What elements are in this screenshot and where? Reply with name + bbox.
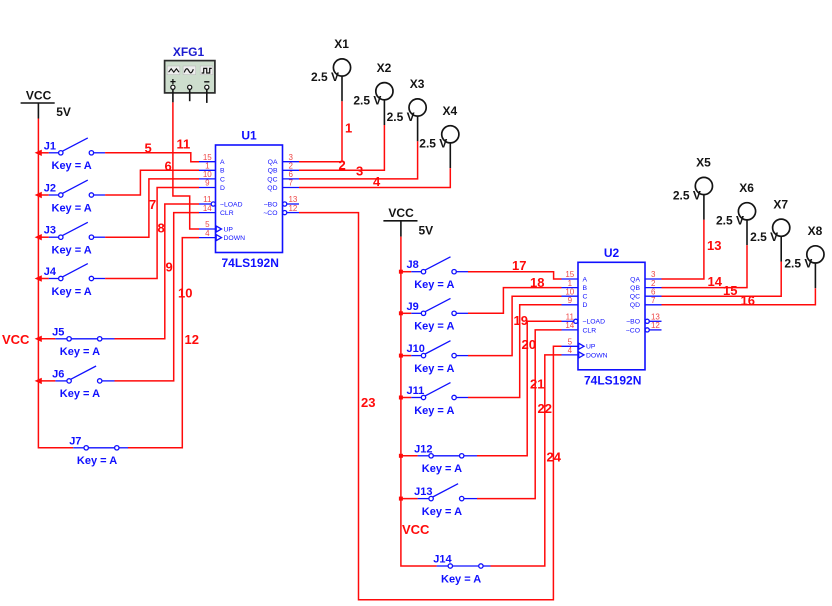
wire 20 : J11 to U2 pin D — [468, 305, 562, 398]
svg-text:19: 19 — [514, 313, 528, 328]
wire 9 : J5 to U1 pin ~LOAD — [115, 204, 200, 339]
wire 18 : J9 to U2 pin B — [468, 288, 562, 314]
junction arrow at J4 row — [35, 275, 42, 281]
svg-text:2.5 V: 2.5 V — [419, 137, 447, 151]
svg-text:X4: X4 — [443, 104, 458, 118]
pin 12 (~CO) of U1 — [283, 211, 287, 215]
wire 12 : J7 to U1 pin DOWN — [128, 238, 199, 448]
wire 11 : XFG1 + output to U1 pin UP — [173, 102, 199, 229]
switch J9 — [407, 298, 469, 332]
svg-text:17: 17 — [512, 258, 526, 273]
svg-text:2.5 V: 2.5 V — [750, 230, 778, 244]
svg-text:18: 18 — [530, 275, 544, 290]
svg-text:5: 5 — [145, 141, 152, 156]
switch J6 — [52, 366, 114, 400]
svg-text:J6: J6 — [52, 368, 64, 380]
svg-text:4: 4 — [568, 346, 573, 355]
svg-text:~LOAD: ~LOAD — [583, 319, 606, 326]
svg-text:B: B — [220, 168, 225, 175]
svg-text:U2: U2 — [604, 246, 620, 260]
svg-text:X5: X5 — [696, 156, 711, 170]
wire from VCC rail to J8 — [401, 271, 411, 273]
wire 4 : U1 QD to lamp X4 — [299, 168, 450, 187]
svg-text:J12: J12 — [414, 443, 432, 455]
wire from VCC rail to J13 — [401, 498, 418, 500]
svg-text:QC: QC — [630, 294, 640, 301]
svg-text:~BO: ~BO — [626, 319, 640, 326]
wire 15 : U2 QC to lamp X7 — [662, 262, 782, 297]
svg-text:X1: X1 — [334, 37, 349, 51]
svg-text:D: D — [583, 302, 588, 309]
counter IC U2 74LS192N — [562, 246, 662, 388]
svg-text:15: 15 — [723, 283, 737, 298]
pin 15 (A) of U2 — [562, 278, 579, 280]
svg-text:C: C — [220, 176, 225, 183]
pin 4 (DOWN) of U2 — [562, 354, 579, 356]
svg-text:J1: J1 — [44, 140, 56, 152]
svg-text:Key = A: Key = A — [52, 160, 92, 172]
svg-text:QD: QD — [630, 302, 640, 309]
switch J8 — [407, 257, 469, 291]
svg-text:2.5 V: 2.5 V — [353, 94, 381, 108]
pin 6 (QC) of U2 — [645, 295, 662, 297]
svg-text:11: 11 — [177, 137, 191, 152]
svg-text:Key = A: Key = A — [414, 279, 454, 291]
svg-text:J11: J11 — [407, 385, 425, 397]
svg-text:X7: X7 — [773, 197, 788, 211]
svg-text:2: 2 — [339, 158, 346, 173]
svg-text:X2: X2 — [377, 61, 392, 75]
svg-text:~LOAD: ~LOAD — [220, 201, 243, 208]
svg-text:J7: J7 — [69, 435, 81, 447]
lamp X7 2.5V — [750, 197, 790, 261]
wire from VCC rail to J10 — [401, 355, 411, 357]
function generator XFG1 — [165, 45, 215, 103]
svg-text:9: 9 — [166, 260, 173, 275]
switch J11 — [407, 383, 469, 417]
pin 5 (UP) of U1 — [199, 228, 216, 230]
wire 16 : U2 QD to lamp X8 — [662, 288, 816, 305]
svg-text:6: 6 — [165, 158, 172, 173]
junction arrow at J2 row — [35, 192, 42, 198]
power symbol VCC 5V (right section) — [383, 206, 433, 237]
switch J10 — [407, 341, 469, 375]
wire from VCC rail to J9 — [401, 312, 411, 314]
pin 2 (QB) of U1 — [283, 169, 300, 171]
svg-text:14: 14 — [565, 321, 574, 330]
svg-text:14: 14 — [708, 274, 723, 289]
pin 15 (A) of U1 — [199, 161, 216, 163]
pin 1 (B) of U1 — [199, 169, 216, 171]
svg-text:Key = A: Key = A — [414, 321, 454, 333]
wire from VCC rail to J1 — [38, 152, 48, 154]
svg-text:D: D — [220, 185, 225, 192]
wire 8 : J4 to U1 pin D — [105, 188, 199, 279]
pin 4 (DOWN) of U1 — [199, 237, 216, 239]
svg-text:A: A — [583, 276, 588, 283]
svg-text:1: 1 — [345, 121, 352, 136]
wire from VCC rail to J2 — [38, 194, 48, 196]
pin 6 (QC) of U1 — [283, 178, 300, 180]
pin 13 (~BO) of U2 — [645, 319, 649, 323]
junction dot at J10 row — [399, 354, 403, 358]
svg-text:DOWN: DOWN — [224, 235, 246, 242]
pin 9 (D) of U1 — [199, 187, 216, 189]
svg-text:7: 7 — [288, 179, 293, 188]
svg-text:23: 23 — [361, 395, 375, 410]
svg-text:2.5 V: 2.5 V — [784, 257, 812, 271]
svg-text:2.5 V: 2.5 V — [387, 110, 415, 124]
svg-text:9: 9 — [568, 296, 573, 305]
wire 13 : U2 QA to lamp X5 — [662, 220, 704, 279]
svg-text:X3: X3 — [410, 77, 425, 91]
svg-text:12: 12 — [185, 332, 199, 347]
wire VCC rail (left section) — [38, 119, 73, 448]
svg-text:5V: 5V — [56, 105, 71, 119]
wire 19 : J10 to U2 pin C — [468, 296, 562, 355]
svg-text:10: 10 — [178, 286, 192, 301]
lamp X5 2.5V — [673, 156, 713, 220]
pin 9 (D) of U2 — [562, 304, 579, 306]
svg-text:21: 21 — [530, 377, 544, 392]
pin 7 (QD) of U2 — [645, 304, 662, 306]
junction dot at J12 row — [399, 454, 403, 458]
pin 14 (CLR) of U1 — [199, 212, 216, 214]
wire 10 : J6 to U1 pin CLR — [115, 213, 200, 381]
svg-text:J13: J13 — [414, 486, 432, 498]
pin 10 (C) of U2 — [562, 295, 579, 297]
svg-text:3: 3 — [356, 164, 363, 179]
svg-text:14: 14 — [203, 204, 212, 213]
wire from VCC rail to J12 — [401, 455, 418, 457]
wire VCC rail (right section) — [401, 237, 437, 566]
lamp X4 2.5V — [419, 104, 459, 168]
pin 1 (B) of U2 — [562, 287, 579, 289]
svg-text:J2: J2 — [44, 183, 56, 195]
switch J3 — [44, 222, 105, 256]
svg-text:VCC: VCC — [2, 332, 30, 347]
pin 7 (QD) of U1 — [283, 187, 300, 189]
svg-text:74LS192N: 74LS192N — [222, 256, 279, 270]
svg-text:J4: J4 — [44, 266, 57, 278]
svg-text:~CO: ~CO — [626, 327, 640, 334]
svg-text:~BO: ~BO — [264, 201, 278, 208]
svg-text:Key = A: Key = A — [60, 388, 100, 400]
switch J5 — [52, 326, 114, 358]
svg-text:13: 13 — [707, 238, 721, 253]
svg-text:Key = A: Key = A — [414, 363, 454, 375]
svg-text:7: 7 — [651, 296, 656, 305]
svg-text:J8: J8 — [407, 259, 419, 271]
junction dot at J8 row — [399, 270, 403, 274]
svg-text:QB: QB — [630, 285, 640, 292]
pin 11 (~LOAD) of U2 — [562, 320, 574, 322]
wire 6 : J2 to U1 pin B — [105, 170, 199, 195]
svg-text:A: A — [220, 159, 225, 166]
power symbol VCC 5V (left section) — [21, 89, 71, 120]
wire from VCC rail to J4 — [38, 278, 48, 280]
switch J14 — [433, 554, 490, 586]
wire from VCC rail to J5 — [38, 338, 55, 340]
svg-text:2.5 V: 2.5 V — [311, 70, 339, 84]
svg-text:4: 4 — [205, 229, 210, 238]
wire 23 : U1 ~CO to U2 pin UP — [299, 213, 562, 600]
svg-text:Key = A: Key = A — [52, 286, 92, 298]
switch J1 — [44, 138, 105, 172]
svg-text:XFG1: XFG1 — [173, 45, 205, 59]
svg-text:UP: UP — [586, 344, 596, 351]
svg-text:20: 20 — [522, 337, 536, 352]
switch J2 — [44, 180, 105, 214]
svg-text:~CO: ~CO — [263, 210, 277, 217]
wire from VCC rail to J6 — [38, 380, 55, 382]
svg-text:X6: X6 — [739, 181, 754, 195]
pin 3 (QA) of U2 — [645, 278, 662, 280]
svg-text:9: 9 — [205, 179, 210, 188]
svg-text:J5: J5 — [52, 326, 64, 338]
svg-text:J9: J9 — [407, 301, 419, 313]
junction arrow at J5 row — [35, 336, 42, 342]
svg-text:J10: J10 — [407, 343, 425, 355]
svg-text:CLR: CLR — [220, 210, 234, 217]
svg-text:J3: J3 — [44, 225, 56, 237]
svg-text:UP: UP — [224, 226, 234, 233]
svg-text:Key = A: Key = A — [422, 506, 462, 518]
wire 7 : J3 to U1 pin C — [105, 179, 199, 237]
svg-text:2.5 V: 2.5 V — [673, 188, 701, 202]
pin 11 (~LOAD) of U1 — [199, 203, 211, 205]
lamp X6 2.5V — [716, 181, 756, 245]
switch J13 — [414, 484, 477, 518]
wire 14 : U2 QB to lamp X6 — [662, 245, 748, 288]
svg-text:4: 4 — [373, 174, 381, 189]
svg-text:C: C — [583, 294, 588, 301]
svg-text:5V: 5V — [419, 224, 434, 238]
pin 12 (~CO) of U2 — [645, 328, 649, 332]
svg-text:B: B — [583, 285, 588, 292]
lamp X8 2.5V — [784, 224, 824, 288]
switch J7 — [69, 435, 128, 467]
svg-text:Key = A: Key = A — [60, 346, 100, 358]
svg-text:Key = A: Key = A — [422, 463, 462, 475]
wire 22 : J13 to U2 pin CLR — [477, 330, 562, 499]
switch J12 — [414, 443, 477, 475]
lamp X2 2.5V — [353, 61, 393, 125]
pin 13 (~BO) of U1 — [283, 202, 287, 206]
svg-text:DOWN: DOWN — [586, 352, 608, 359]
svg-text:QC: QC — [267, 176, 277, 183]
svg-text:16: 16 — [741, 293, 755, 308]
pin 10 (C) of U1 — [199, 178, 216, 180]
junction dot at J9 row — [399, 311, 403, 315]
svg-text:12: 12 — [651, 321, 660, 330]
svg-text:CLR: CLR — [583, 327, 597, 334]
junction arrow at J1 row — [35, 150, 42, 156]
svg-text:Key = A: Key = A — [77, 455, 117, 467]
svg-text:VCC: VCC — [26, 89, 52, 103]
switch J4 — [44, 264, 105, 298]
junction dot at J13 row — [399, 497, 403, 501]
pin 3 (QA) of U1 — [283, 161, 300, 163]
svg-text:Key = A: Key = A — [52, 202, 92, 214]
svg-text:QD: QD — [267, 185, 277, 192]
svg-text:QA: QA — [630, 276, 640, 283]
svg-text:7: 7 — [149, 197, 156, 212]
pin 14 (CLR) of U2 — [562, 329, 579, 331]
lamp X3 2.5V — [387, 77, 427, 141]
svg-text:VCC: VCC — [388, 206, 414, 220]
wire from VCC rail to J11 — [401, 397, 411, 399]
junction arrow at J3 row — [35, 234, 42, 240]
svg-text:12: 12 — [288, 204, 297, 213]
svg-text:QB: QB — [268, 168, 278, 175]
junction dot at J11 row — [399, 396, 403, 400]
pin 2 (QB) of U2 — [645, 287, 662, 289]
wire 21 : J12 to U2 pin ~LOAD — [477, 321, 562, 456]
svg-text:VCC: VCC — [402, 522, 430, 537]
svg-text:QA: QA — [268, 159, 278, 166]
wire 24 : J14 to U2 pin DOWN — [491, 355, 562, 566]
svg-text:X8: X8 — [808, 224, 823, 238]
counter IC U1 74LS192N — [199, 129, 299, 271]
wire 3 : U1 QC to lamp X3 — [299, 141, 418, 179]
lamp X1 2.5V — [311, 37, 351, 101]
svg-text:U1: U1 — [241, 129, 257, 143]
wire 17 : J8 to U2 pin A — [468, 272, 562, 279]
pin 5 (UP) of U2 — [562, 345, 579, 347]
wire from VCC rail to J3 — [38, 236, 48, 238]
svg-text:Key = A: Key = A — [52, 245, 92, 257]
wire 1 : U1 QA to lamp X1 — [299, 101, 342, 161]
svg-text:74LS192N: 74LS192N — [584, 373, 641, 387]
svg-text:J14: J14 — [433, 554, 452, 566]
svg-text:Key = A: Key = A — [414, 405, 454, 417]
wire 5 : J1 to U1 pin A — [105, 153, 199, 162]
wire 2 : U1 QB to lamp X2 — [299, 125, 384, 170]
svg-text:Key = A: Key = A — [441, 573, 481, 585]
svg-text:8: 8 — [158, 221, 165, 236]
svg-text:2.5 V: 2.5 V — [716, 214, 744, 228]
junction arrow at J6 row — [35, 378, 42, 384]
